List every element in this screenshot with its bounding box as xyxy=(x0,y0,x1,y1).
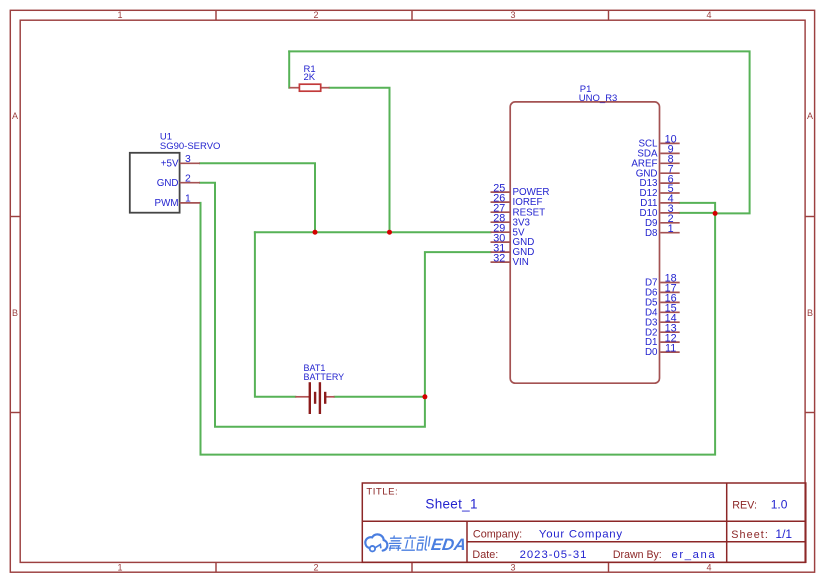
svg-text:2023-05-31: 2023-05-31 xyxy=(520,549,588,561)
pin 28 3V3 of P1 xyxy=(491,212,531,228)
pin 26 IOREF of P1 xyxy=(491,192,543,208)
svg-text:Drawn By:: Drawn By: xyxy=(613,549,662,561)
pin 2 D9 of P1 xyxy=(645,213,680,229)
pin 3 +5V of U1 xyxy=(161,154,200,169)
pin 3 D10 of P1 xyxy=(640,203,680,219)
wire: battery + riser xyxy=(255,232,295,397)
wire: servo +5V to bus xyxy=(200,163,315,232)
wire: servo PWM bottom loop to D10/D11 xyxy=(201,203,716,455)
pin 4 D11 of P1 xyxy=(640,193,679,209)
wire: D11 stub xyxy=(680,203,715,214)
svg-text:BATTERY: BATTERY xyxy=(304,372,345,382)
battery BAT1 BATTERY xyxy=(295,363,344,414)
wire: R1 left lead drop xyxy=(288,51,290,87)
pin 13 D2 of P1 xyxy=(645,322,680,338)
svg-text:2: 2 xyxy=(185,174,191,185)
svg-text:Sheet_1: Sheet_1 xyxy=(425,496,477,511)
pin 7 GND of P1 xyxy=(636,163,680,179)
pin 1 D8 of P1 xyxy=(645,223,680,239)
svg-text:TITLE:: TITLE: xyxy=(366,487,398,498)
pin 5 D12 of P1 xyxy=(640,183,680,199)
svg-text:Date:: Date: xyxy=(472,549,498,561)
pin 15 D4 of P1 xyxy=(645,303,680,319)
pin 11 D0 of P1 xyxy=(645,342,680,358)
title block xyxy=(362,483,806,562)
svg-text:2K: 2K xyxy=(304,72,316,83)
svg-text:3: 3 xyxy=(510,563,515,573)
pin 17 D6 of P1 xyxy=(645,283,680,299)
svg-text:2: 2 xyxy=(313,563,318,573)
svg-text:4: 4 xyxy=(706,10,711,20)
svg-text:A: A xyxy=(807,111,813,121)
pin 29 5V of P1 xyxy=(491,222,525,238)
pin 14 D3 of P1 xyxy=(645,312,680,328)
svg-text:3: 3 xyxy=(185,154,191,165)
pin 31 GND of P1 xyxy=(491,242,535,258)
connector P1 UNO_R3 box xyxy=(510,84,659,383)
svg-text:REV:: REV: xyxy=(732,500,757,512)
svg-text:+5V: +5V xyxy=(161,159,179,170)
svg-text:1: 1 xyxy=(668,223,674,235)
pin 6 D13 of P1 xyxy=(640,173,680,189)
junction battery-/GND xyxy=(422,394,427,399)
resistor R1 2K xyxy=(289,64,329,91)
svg-text:11: 11 xyxy=(665,342,676,354)
pin 10 SCL of P1 xyxy=(638,134,679,150)
svg-text:Company:: Company: xyxy=(473,528,522,540)
pin 16 D5 of P1 xyxy=(645,293,680,309)
wire: R1 right to 5V bus xyxy=(330,88,390,233)
svg-text:Sheet:: Sheet: xyxy=(731,529,769,541)
svg-text:PWM: PWM xyxy=(155,198,179,209)
svg-text:er_ana: er_ana xyxy=(672,549,717,561)
wire: battery - to GND riser xyxy=(335,396,425,398)
wire: GND net servo pin2 to UNO pin31 xyxy=(200,183,491,427)
svg-text:B: B xyxy=(12,308,18,318)
pin 32 VIN of P1 xyxy=(491,252,529,268)
svg-text:A: A xyxy=(12,111,18,121)
svg-text:2: 2 xyxy=(313,10,318,20)
pin 25 POWER of P1 xyxy=(491,182,550,198)
pin 18 D7 of P1 xyxy=(645,273,680,289)
svg-text:GND: GND xyxy=(157,178,179,189)
svg-text:1: 1 xyxy=(117,563,122,573)
svg-text:D8: D8 xyxy=(645,228,658,239)
svg-text:VIN: VIN xyxy=(513,257,529,268)
svg-text:UNO_R3: UNO_R3 xyxy=(579,93,618,104)
wire: D10 stub xyxy=(680,212,715,214)
svg-text:1/1: 1/1 xyxy=(775,527,792,541)
pin 12 D1 of P1 xyxy=(645,332,680,348)
pin 8 AREF of P1 xyxy=(631,154,679,170)
junction bus/R1 xyxy=(387,230,392,235)
svg-text:1.0: 1.0 xyxy=(771,498,788,512)
svg-text:32: 32 xyxy=(493,252,505,264)
svg-text:EDA: EDA xyxy=(430,535,468,554)
pin 27 RESET of P1 xyxy=(491,202,546,218)
svg-text:1: 1 xyxy=(117,10,122,20)
pin 1 PWM of U1 xyxy=(155,194,200,209)
pin 9 SDA of P1 xyxy=(637,144,679,160)
JLC EDA logo xyxy=(365,534,430,551)
svg-text:3: 3 xyxy=(510,10,515,20)
junction bus/servo5V xyxy=(313,230,318,235)
svg-text:B: B xyxy=(807,308,813,318)
svg-text:4: 4 xyxy=(706,563,711,573)
component U1 SG90-SERVO box xyxy=(130,131,221,212)
wire: net D10/PWM top loop (R1 left to right rail) xyxy=(289,51,749,213)
svg-text:1: 1 xyxy=(185,194,191,205)
svg-text:SG90-SERVO: SG90-SERVO xyxy=(160,141,221,152)
wire: 5V bus horizontal xyxy=(255,231,491,233)
pin 30 GND of P1 xyxy=(491,232,535,248)
svg-text:D0: D0 xyxy=(645,347,658,358)
pin 2 GND of U1 xyxy=(157,174,200,189)
junction D10 net xyxy=(713,211,718,216)
svg-text:Your Company: Your Company xyxy=(539,528,623,540)
